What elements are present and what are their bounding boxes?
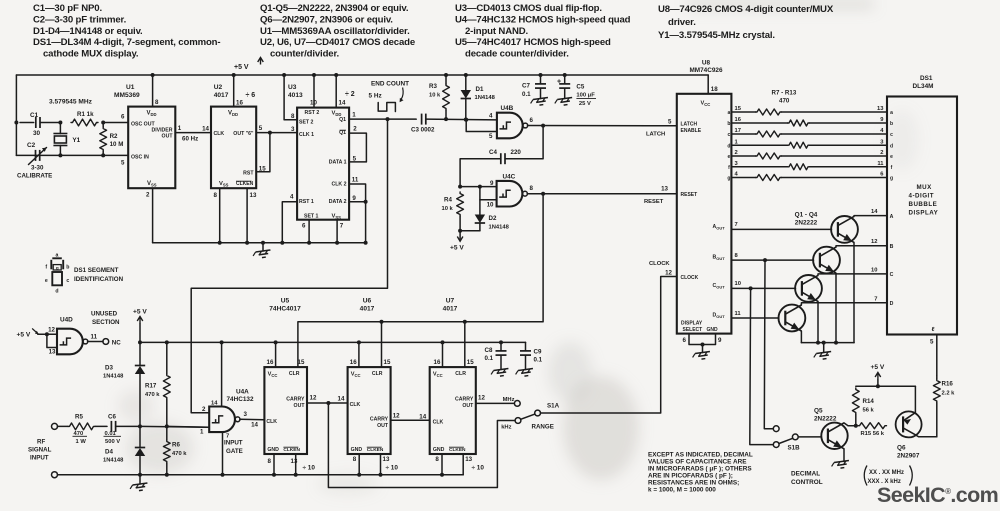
svg-text:2: 2: [880, 150, 883, 156]
svg-text:7: 7: [226, 434, 229, 440]
svg-text:6: 6: [683, 337, 687, 344]
transistor Q1 2N2222: [831, 216, 858, 243]
svg-text:OSC IN: OSC IN: [131, 154, 149, 160]
terminal kHz contact: [501, 418, 521, 431]
svg-text:a: a: [890, 110, 893, 116]
svg-text:500 V: 500 V: [105, 439, 120, 445]
svg-text:÷ 10: ÷ 10: [386, 465, 399, 472]
resistor segment c wire U8 pin 17: [728, 128, 887, 138]
svg-text:13: 13: [661, 186, 668, 193]
capacitor C3: [411, 114, 497, 134]
svg-text:CARRY: CARRY: [455, 397, 474, 403]
svg-text:U8: U8: [702, 60, 711, 67]
svg-text:12: 12: [871, 239, 877, 245]
svg-text:14: 14: [871, 209, 878, 215]
pin U8 VCC 18: [708, 75, 718, 94]
note parts list column 3: [455, 3, 631, 60]
resistor R2: [100, 123, 124, 156]
svg-text:10: 10: [487, 202, 494, 209]
svg-text:Y1: Y1: [72, 137, 80, 144]
svg-text:U5—74HC4017 HCMOS high-speed: U5—74HC4017 HCMOS high-speed: [455, 37, 611, 48]
transistor Q3 2N2222: [795, 275, 822, 302]
svg-text:4: 4: [489, 113, 493, 120]
svg-text:16: 16: [735, 117, 742, 123]
note parts list column 4: [658, 4, 834, 41]
switch S1B: [779, 434, 800, 452]
svg-text:RST 2: RST 2: [305, 110, 320, 116]
svg-text:74HC132: 74HC132: [227, 396, 254, 403]
pin U4C input 9: [458, 180, 497, 189]
svg-text:18: 18: [711, 86, 718, 93]
svg-text:CLK: CLK: [350, 402, 361, 408]
node U6 CLR junction: [380, 320, 384, 324]
svg-text:Y1—3.579545-MHz crystal.: Y1—3.579545-MHz crystal.: [658, 30, 775, 41]
svg-text:DATA 1: DATA 1: [329, 160, 347, 166]
svg-text:÷ 2: ÷ 2: [345, 91, 355, 98]
svg-text:13: 13: [877, 106, 884, 112]
wire Q6 collector to R16: [916, 435, 937, 437]
capacitor C9: [515, 342, 543, 377]
op-amp U4D NAND unused: [57, 311, 120, 355]
svg-text:17: 17: [735, 128, 741, 134]
svg-text:CLK: CLK: [266, 419, 277, 425]
svg-text:4013: 4013: [288, 92, 303, 99]
pin U3 RST1 4: [282, 193, 297, 243]
resistor R1: [71, 111, 98, 126]
wire left rail drop to oscillator: [15, 75, 17, 155]
svg-text:4017: 4017: [443, 306, 458, 313]
svg-text:12: 12: [393, 413, 400, 420]
svg-text:1N4148: 1N4148: [103, 458, 124, 464]
svg-text:D1-D4—1N4148 or equiv.: D1-D4—1N4148 or equiv.: [33, 26, 143, 37]
svg-text:Q1 - Q4: Q1 - Q4: [795, 212, 818, 219]
pin U2 CLKEN 13: [247, 188, 257, 243]
svg-text:RST 1: RST 1: [299, 199, 314, 205]
terminal S1B lower contact: [773, 442, 779, 448]
diode D1: [461, 73, 496, 122]
svg-text:25 V: 25 V: [579, 101, 591, 107]
pin U3 Q1 1 wire to C3: [349, 112, 416, 120]
svg-text:U4—74HC132 HCMOS high-speed qu: U4—74HC132 HCMOS high-speed quad: [455, 14, 631, 25]
pin U1 1 divider out: [175, 125, 211, 143]
note decimal values: [648, 452, 753, 494]
pin U2 15 RST loop: [256, 131, 272, 173]
svg-text:D1: D1: [476, 86, 484, 93]
svg-text:13: 13: [291, 458, 298, 465]
pin U3 VDD 14: [334, 73, 346, 108]
svg-text:CALIBRATE: CALIBRATE: [17, 173, 52, 180]
wire +5V decimal rail: [856, 384, 916, 388]
svg-text:S1A: S1A: [547, 403, 560, 410]
svg-text:8: 8: [435, 456, 439, 463]
wire END COUNT feedback to input gate: [191, 119, 387, 413]
node Q1 feedback junction: [386, 117, 390, 121]
svg-text:U4D: U4D: [60, 317, 73, 324]
svg-text:RESET: RESET: [681, 192, 698, 198]
svg-text:CARRY: CARRY: [286, 397, 305, 403]
pin U4A GND 7: [223, 432, 230, 475]
svg-text:GATE: GATE: [226, 448, 243, 455]
svg-text:ENABLE: ENABLE: [681, 128, 702, 134]
pin DS1 decimal 5: [930, 327, 937, 376]
wire +5V lower bus: [138, 340, 526, 344]
transistor Q4 2N2222: [779, 305, 806, 332]
svg-text:d: d: [55, 288, 58, 294]
svg-text:U7: U7: [446, 298, 455, 305]
wire ground return bus: [58, 473, 464, 477]
note parts list column 1: [33, 3, 220, 60]
svg-text:11: 11: [91, 334, 98, 341]
terminal RF input top: [52, 423, 58, 429]
svg-text:2N2222: 2N2222: [795, 220, 818, 227]
pin DS1 segment c 4: [880, 128, 893, 138]
svg-text:C2: C2: [27, 142, 36, 149]
svg-text:5: 5: [668, 119, 672, 126]
svg-text:OUT "6": OUT "6": [233, 131, 254, 137]
svg-text:14: 14: [338, 396, 345, 403]
resistor R6: [163, 426, 187, 474]
wire Q1 collector to DS1: [854, 209, 894, 220]
svg-text:15: 15: [467, 359, 474, 366]
pin U5 CLKEN 13: [291, 454, 298, 475]
svg-text:VCC: VCC: [351, 372, 361, 379]
pin U4B input 4: [464, 113, 493, 122]
pin U3 SET1 6: [302, 220, 309, 243]
svg-text:U6: U6: [363, 298, 372, 305]
svg-text:Q1: Q1: [339, 117, 346, 123]
svg-text:c: c: [728, 132, 731, 138]
pin U8 Dout 11: [713, 311, 779, 319]
svg-text:VDD: VDD: [147, 111, 157, 118]
pin U3 VSS 7: [337, 220, 344, 243]
svg-text:d: d: [727, 143, 730, 149]
svg-text:15: 15: [735, 106, 742, 112]
svg-text:BOUT: BOUT: [713, 255, 726, 262]
pin U4C input 10: [480, 187, 497, 209]
svg-text:8: 8: [353, 456, 357, 463]
svg-text:kHz: kHz: [501, 425, 511, 431]
pin U7 VCC 16: [434, 342, 443, 367]
resistor R3: [429, 73, 449, 121]
svg-text:R1 1k: R1 1k: [77, 111, 94, 118]
svg-text:cathode MUX display.: cathode MUX display.: [43, 49, 138, 60]
svg-text:LATCH: LATCH: [681, 122, 698, 128]
svg-text:RESET: RESET: [644, 199, 664, 205]
wire Bout to S1B upper contact: [764, 260, 773, 429]
svg-text:CLK 1: CLK 1: [299, 132, 314, 138]
svg-text:INPUT: INPUT: [30, 455, 49, 462]
svg-text:e: e: [890, 154, 893, 160]
svg-text:12: 12: [310, 395, 317, 402]
svg-text:GND: GND: [351, 447, 363, 453]
pin U4C output 8: [527, 185, 677, 196]
pin U6 VCC 16: [350, 342, 359, 367]
pin U3 CLK1 3: [291, 126, 295, 133]
svg-text:U3—CD4013 CMOS dual flip-flop.: U3—CD4013 CMOS dual flip-flop.: [455, 3, 602, 14]
svg-text:f: f: [45, 264, 47, 270]
svg-text:Q5: Q5: [814, 408, 823, 415]
svg-text:1: 1: [352, 112, 356, 119]
svg-text:D2: D2: [489, 215, 497, 222]
pin U1 VDD 8: [151, 73, 159, 107]
svg-text:OUT: OUT: [462, 403, 474, 409]
IC U1 MM5369: [114, 84, 175, 188]
svg-text:C8: C8: [485, 347, 493, 354]
pin U4A input 1: [167, 426, 209, 435]
svg-text:OSC OUT: OSC OUT: [131, 121, 155, 127]
svg-text:decade counter/divider.: decade counter/divider.: [465, 49, 569, 60]
svg-text:RESISTANCES ARE IN OHMS;: RESISTANCES ARE IN OHMS;: [648, 480, 739, 487]
pin U8 Bout 8: [713, 253, 814, 261]
svg-text:C2—3-30 pF trimmer.: C2—3-30 pF trimmer.: [33, 14, 126, 25]
svg-text:U2: U2: [214, 84, 223, 91]
svg-text:4017: 4017: [360, 306, 375, 313]
svg-text:+5 V: +5 V: [234, 64, 249, 71]
svg-text:R6: R6: [172, 442, 180, 449]
svg-text:16: 16: [350, 359, 357, 366]
svg-text:b: b: [890, 121, 893, 127]
svg-text:+: +: [557, 79, 561, 86]
pin U6 CLKEN 13: [381, 454, 390, 475]
resistor R15: [858, 423, 887, 438]
pin U2 VDD 16: [232, 73, 244, 107]
svg-text:9: 9: [352, 195, 356, 202]
svg-text:U8—74C926 CMOS 4-digit counter: U8—74C926 CMOS 4-digit counter/MUX: [658, 4, 834, 15]
pin U3 Q1bar 2 to DATA1 5: [349, 125, 366, 162]
pin U1 6 label: [121, 114, 125, 121]
label END COUNT 5 Hz: [369, 81, 410, 112]
svg-text:2: 2: [202, 406, 206, 413]
switch S1A: [521, 403, 560, 431]
svg-text:2: 2: [735, 150, 738, 156]
svg-text:CLKEN: CLKEN: [367, 447, 384, 453]
svg-text:DISPLAY: DISPLAY: [909, 210, 939, 217]
svg-text:R4: R4: [444, 197, 452, 204]
svg-text:1: 1: [178, 125, 182, 132]
svg-text:3: 3: [291, 126, 295, 133]
diode D4: [103, 426, 145, 474]
svg-text:DECIMAL: DECIMAL: [791, 471, 820, 478]
wire S1A common to U8 clock: [541, 277, 677, 414]
svg-text:driver.: driver.: [668, 17, 696, 28]
pin DS1 segment a 13: [877, 106, 893, 116]
svg-text:Q1: Q1: [339, 130, 346, 136]
IC U5 74HC4017: [264, 298, 307, 455]
note parts list column 2: [260, 3, 415, 60]
svg-text:14: 14: [251, 422, 258, 429]
svg-text:3: 3: [244, 411, 248, 418]
resistor R16: [933, 376, 955, 437]
pin U8 Aout 7: [713, 222, 832, 230]
svg-text:VDD: VDD: [228, 111, 238, 118]
svg-text:R7 - R13: R7 - R13: [772, 90, 797, 97]
svg-text:VSS: VSS: [332, 214, 342, 221]
svg-text:UNUSED: UNUSED: [91, 311, 118, 318]
svg-text:LATCH: LATCH: [646, 132, 665, 138]
svg-text:11: 11: [352, 176, 359, 183]
svg-text:e: e: [45, 278, 48, 284]
svg-text:14: 14: [211, 401, 218, 407]
svg-text:e: e: [728, 154, 731, 160]
svg-text:470 k: 470 k: [172, 451, 187, 457]
ground VSS bus: [253, 241, 272, 259]
pin U8 Cout 10: [713, 281, 796, 289]
svg-text:0.1: 0.1: [534, 357, 543, 364]
svg-text:15: 15: [298, 359, 305, 366]
pin DS1 segment g 6: [880, 172, 893, 182]
svg-text:C5: C5: [576, 84, 584, 91]
svg-text:13: 13: [250, 192, 257, 199]
svg-text:U4C: U4C: [503, 174, 516, 181]
wire VSS ground bus: [153, 241, 368, 245]
svg-text:8: 8: [155, 99, 159, 106]
svg-text:+5 V: +5 V: [17, 332, 31, 339]
label CLOCK wire: [649, 261, 673, 277]
svg-text:a: a: [56, 252, 59, 258]
pin DS1 segment e 2: [880, 150, 893, 160]
svg-text:EXCEPT AS INDICATED, DECIMAL: EXCEPT AS INDICATED, DECIMAL: [648, 452, 753, 459]
svg-text:R3: R3: [429, 83, 437, 90]
wire +5V top rail: [16, 74, 708, 76]
resistor segment e wire U8 pin 2: [728, 150, 887, 160]
svg-text:CLKEN: CLKEN: [449, 447, 466, 453]
wire U5 carry to kHz contact: [328, 403, 515, 488]
svg-text:C7: C7: [522, 83, 530, 90]
crystal Y1: [53, 123, 80, 156]
svg-text:VALUES OF CAPACITANCE ARE: VALUES OF CAPACITANCE ARE: [648, 459, 747, 466]
transistor Q6 2N2907: [896, 411, 922, 459]
svg-text:INPUT: INPUT: [224, 440, 243, 447]
svg-text:CLKEN: CLKEN: [283, 447, 300, 453]
IC U2 4017: [211, 84, 256, 188]
wire Q5 collector: [844, 423, 856, 426]
logo SeekIC.com: [877, 483, 998, 507]
svg-text:10: 10: [310, 100, 317, 107]
svg-text:16: 16: [434, 359, 441, 366]
svg-text:8: 8: [214, 192, 218, 199]
pin U4A output 3: [240, 411, 265, 429]
svg-text:DS1—DL34M 4-digit, 7-segment,: DS1—DL34M 4-digit, 7-segment, common-: [33, 37, 220, 48]
resistor segment a wire U8 pin 15: [728, 106, 887, 116]
icon DS1 segment identification: [45, 252, 124, 294]
svg-text:C3 0002: C3 0002: [411, 127, 435, 134]
svg-text:13: 13: [49, 349, 56, 356]
svg-text:VSS: VSS: [147, 181, 157, 188]
label display format: [864, 466, 912, 486]
label U5 divide by 10: [303, 465, 316, 472]
IC U8 MM74C926: [677, 60, 732, 334]
svg-text:END COUNT: END COUNT: [371, 81, 409, 88]
svg-text:CLR: CLR: [289, 371, 300, 377]
display DS1 DL34M: [887, 75, 957, 335]
terminal MHz contact: [503, 397, 521, 406]
pin U4B input 5 tie: [466, 120, 497, 140]
svg-text:SECTION: SECTION: [92, 319, 120, 326]
svg-text:14: 14: [419, 413, 426, 420]
node R14 R15 Q5 junction: [854, 424, 858, 428]
svg-text:5: 5: [930, 339, 934, 346]
transistor Q5 2N2222: [814, 408, 848, 449]
svg-text:2N2907: 2N2907: [897, 453, 920, 460]
node Bout junction: [763, 258, 767, 262]
svg-text:CLK: CLK: [433, 420, 444, 426]
svg-text:C: C: [890, 272, 894, 278]
capacitor C6: [104, 414, 141, 445]
svg-text:470: 470: [779, 98, 790, 105]
svg-text:16: 16: [267, 359, 274, 366]
svg-text:6: 6: [121, 114, 125, 121]
wire Q6 emitter to +5V: [914, 386, 916, 413]
svg-text:5: 5: [353, 155, 357, 162]
svg-text:OUT: OUT: [294, 403, 306, 409]
svg-text:OUT: OUT: [162, 134, 174, 140]
pin U5 CLR 15: [298, 359, 305, 366]
node Cout junction: [749, 286, 753, 290]
label LATCH wire: [646, 119, 672, 138]
wire Q2 emitter drop: [835, 273, 837, 343]
label RF SIGNAL INPUT: [28, 439, 52, 462]
pin U6 CLK 14 label: [338, 396, 345, 403]
pin DS1 segment d 3: [880, 139, 893, 149]
node U7 CLR junction: [463, 320, 467, 324]
pin U7 CLKEN 13: [463, 454, 472, 475]
svg-text:D3: D3: [105, 365, 113, 372]
svg-text:a: a: [728, 110, 731, 116]
wire Q4 emitter drop: [800, 331, 802, 343]
power +5V rail arrow: [234, 58, 263, 72]
svg-text:g: g: [890, 176, 893, 182]
svg-text:GND: GND: [707, 327, 719, 333]
svg-text:7: 7: [874, 296, 877, 302]
svg-text:8: 8: [268, 458, 272, 465]
wire Q3 emitter drop: [817, 301, 819, 342]
resistor segment b wire U8 pin 16: [727, 117, 887, 127]
label RESET wire: [644, 186, 669, 206]
svg-text:RF: RF: [37, 439, 45, 446]
resistor segment g wire U8 pin 4: [727, 172, 887, 182]
IC U6 4017: [348, 298, 391, 455]
svg-text:÷ 10: ÷ 10: [472, 465, 485, 472]
svg-text:56 k: 56 k: [863, 408, 875, 414]
svg-text:D: D: [890, 301, 894, 307]
svg-text:DS1: DS1: [920, 75, 933, 82]
label R7-R13 470: [772, 90, 797, 105]
pin U7 CLK 14 label: [419, 413, 426, 420]
svg-text:U5: U5: [281, 298, 290, 305]
svg-text:11: 11: [877, 161, 884, 167]
svg-text:MUX: MUX: [917, 184, 933, 191]
svg-text:÷ 10: ÷ 10: [303, 465, 316, 472]
svg-text:1N4148: 1N4148: [103, 374, 124, 380]
label 3.579545 MHz: [49, 99, 93, 106]
svg-text:9: 9: [490, 180, 494, 187]
svg-text:DS1 SEGMENT: DS1 SEGMENT: [74, 267, 119, 274]
op-amp U4C NAND: [497, 174, 528, 207]
svg-text:CLOCK: CLOCK: [649, 261, 670, 267]
pin U5 VCC 16: [267, 342, 276, 367]
svg-text:5 Hz: 5 Hz: [369, 92, 382, 99]
capacitor C1: [20, 112, 60, 137]
svg-text:4017: 4017: [214, 92, 229, 99]
pin U3 CLK2 11 DATA2 9 tie: [349, 176, 368, 243]
svg-text:C4: C4: [489, 149, 497, 156]
svg-text:2.2 k: 2.2 k: [942, 391, 956, 397]
svg-text:2: 2: [146, 192, 150, 199]
pin U7 GND 8: [435, 454, 442, 475]
resistor segment d wire U8 pin 1: [727, 139, 887, 149]
svg-text:12: 12: [665, 270, 672, 277]
svg-text:VCC: VCC: [701, 101, 711, 108]
